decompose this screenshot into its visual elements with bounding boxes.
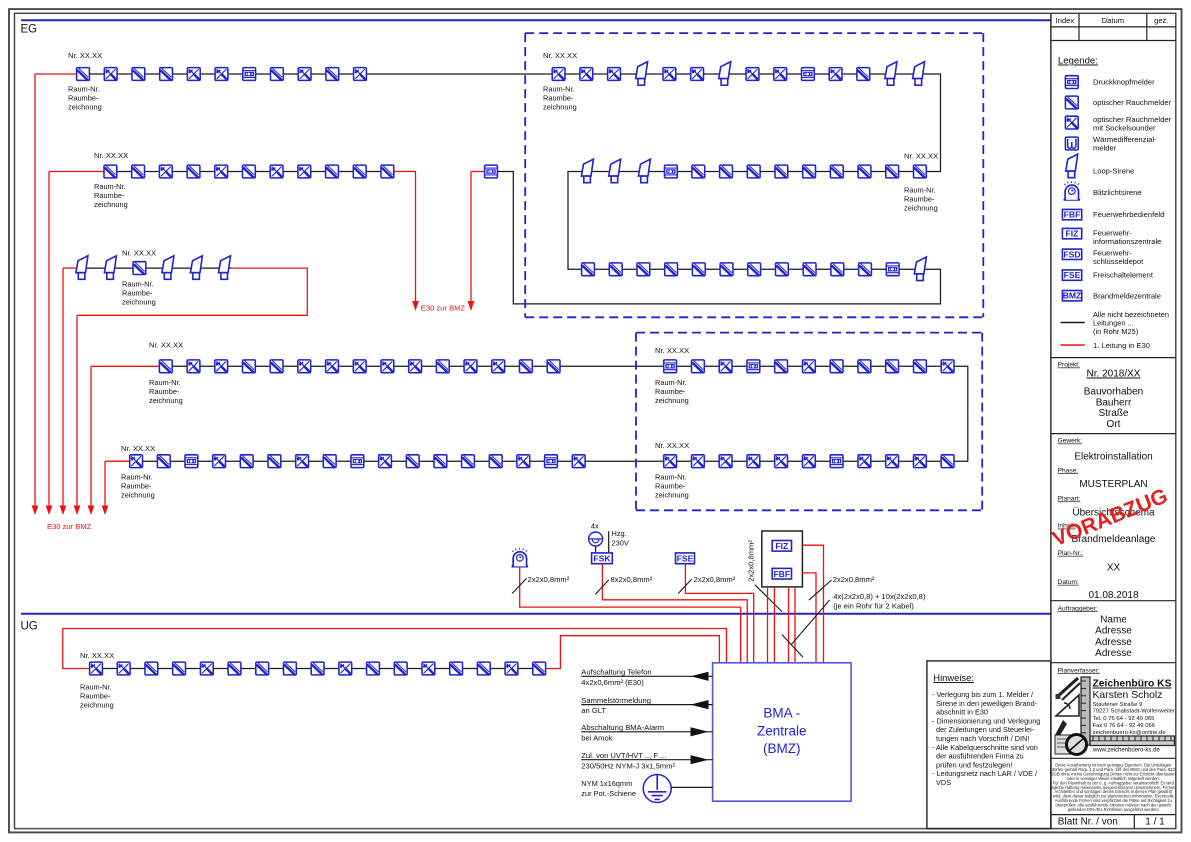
smoke detector with sounder base row D bbox=[492, 360, 505, 373]
manual call point standalone bbox=[485, 165, 498, 178]
wire Hzg to FSK bbox=[608, 531, 610, 553]
smoke detector with sounder base box2 row2 bbox=[803, 455, 816, 468]
svg-text:Aufschaltung Telefon: Aufschaltung Telefon bbox=[581, 668, 651, 677]
wire loop 5 feed horizontal bbox=[105, 460, 130, 462]
svg-text:Nr. XX.XX: Nr. XX.XX bbox=[655, 346, 689, 355]
optical smoke detector row E bbox=[462, 455, 475, 468]
optical smoke detector box1 row2 bbox=[858, 165, 871, 178]
smoke detector with sounder base row D bbox=[298, 360, 311, 373]
svg-text:4x2x0,6mm² (E30): 4x2x0,6mm² (E30) bbox=[581, 678, 644, 687]
optical smoke detector row A bbox=[326, 68, 339, 81]
svg-text:Raum-Nr.Raumbe-zeichnung: Raum-Nr.Raumbe-zeichnung bbox=[655, 473, 689, 500]
smoke detector with sounder base box1 row1 bbox=[691, 68, 704, 81]
optical smoke detector box1 row2 bbox=[914, 165, 927, 178]
svg-text:FSE: FSE bbox=[677, 554, 694, 564]
optical smoke detector row B bbox=[104, 165, 117, 178]
loop siren box1 row1 bbox=[636, 62, 648, 85]
loop siren box1 row3 bbox=[914, 257, 926, 281]
svg-text:2x2x0,8mm²: 2x2x0,8mm² bbox=[694, 575, 736, 584]
cable slash FSE bbox=[678, 579, 692, 593]
wire loop 3 feed riser E30 bbox=[62, 268, 64, 506]
smoke detector with sounder base row B bbox=[270, 165, 283, 178]
svg-text:Planverfasser:: Planverfasser: bbox=[1058, 667, 1100, 674]
optical smoke detector box1 row2 bbox=[830, 165, 843, 178]
svg-text:Freischaltelement: Freischaltelement bbox=[1093, 271, 1154, 280]
loop siren box1 row2 bbox=[609, 159, 621, 183]
optical smoke detector row B bbox=[326, 165, 339, 178]
loop siren box1 row1 bbox=[719, 62, 731, 85]
svg-text:4x: 4x bbox=[591, 522, 599, 531]
wire UG loop return E30 bbox=[546, 636, 720, 669]
manual call point row E bbox=[351, 455, 364, 468]
smoke detector with sounder base box1 row1 bbox=[663, 68, 676, 81]
svg-text:FSK: FSK bbox=[593, 554, 611, 564]
arrowhead loop 2 return bbox=[412, 301, 419, 311]
optical smoke detector UG row bbox=[450, 662, 463, 675]
logo horizontal ruler bbox=[1090, 736, 1175, 746]
smoke detector with sounder base row A bbox=[298, 68, 311, 81]
svg-text:schlüsseldepot: schlüsseldepot bbox=[1093, 257, 1144, 266]
legend symbol cp bbox=[1065, 76, 1078, 89]
smoke detector with sounder base box2 row2 bbox=[775, 455, 788, 468]
loop siren box1 row2 bbox=[638, 159, 650, 183]
svg-text:- Verlegung bis zum 1. Melder: - Verlegung bis zum 1. Melder / Sirene i… bbox=[932, 690, 1040, 787]
smoke detector with sounder base box2 row2 bbox=[858, 455, 871, 468]
title block divider bbox=[1051, 357, 1176, 359]
smoke detector with sounder base box2 row2 bbox=[719, 455, 732, 468]
wire loop 3 feed horizontal bbox=[63, 267, 77, 269]
wire cabinet to BMZ 4 bbox=[794, 587, 796, 663]
wire BMZ connection Abschaltung BMA-Alar bbox=[581, 731, 712, 733]
manual call point box1 row3 bbox=[886, 263, 899, 276]
smoke detector with sounder base box1 row1 bbox=[608, 68, 621, 81]
svg-text:Zul. von UVT/HVT .., F ...: Zul. von UVT/HVT .., F ... bbox=[581, 751, 666, 760]
svg-text:Brandmeldezentrale: Brandmeldezentrale bbox=[1093, 291, 1161, 300]
svg-text:Raum-Nr.Raumbe-zeichnung: Raum-Nr.Raumbe-zeichnung bbox=[122, 280, 156, 307]
svg-text:1. Leitung in E30: 1. Leitung in E30 bbox=[1093, 341, 1150, 350]
svg-text:Nr. XX.XX: Nr. XX.XX bbox=[94, 151, 128, 160]
optical smoke detector box1 row3 bbox=[831, 263, 844, 276]
svg-text:FIZ: FIZ bbox=[775, 541, 788, 551]
arrowhead loop 4 feed riser bbox=[88, 506, 95, 516]
optical smoke detector row E bbox=[489, 455, 502, 468]
FIZ FBF cabinet box bbox=[762, 531, 803, 587]
svg-text:Legende:: Legende: bbox=[1058, 56, 1098, 67]
wire loop 3 return bbox=[77, 268, 307, 315]
svg-text:Hinweise:: Hinweise: bbox=[933, 672, 974, 683]
smoke detector with sounder base box2 row2 bbox=[747, 455, 760, 468]
smoke detector with sounder base UG row bbox=[90, 662, 103, 675]
optical smoke detector box2 row1 bbox=[858, 360, 871, 373]
smoke detector with sounder base row D bbox=[326, 360, 339, 373]
EG floor divider line bbox=[21, 19, 1051, 21]
BMZ fire alarm control panel box bbox=[713, 663, 852, 801]
svg-text:FBF: FBF bbox=[773, 569, 790, 579]
Hinweise notes box bbox=[927, 661, 1051, 829]
cable slash right pair bbox=[809, 580, 832, 600]
arrowhead right bbox=[691, 755, 709, 764]
loop siren box1 row2 bbox=[581, 159, 593, 183]
loop siren box1 row1 bbox=[885, 62, 897, 85]
svg-text:www.zeichenbuero-ks.de: www.zeichenbuero-ks.de bbox=[1092, 748, 1160, 754]
smoke detector with sounder base box2 row1 bbox=[719, 360, 732, 373]
smoke detector with sounder base box2 row2 bbox=[664, 455, 677, 468]
wire cabinet to BMZ 2 bbox=[773, 587, 775, 663]
manual call point row E bbox=[545, 455, 558, 468]
optical smoke detector row A bbox=[271, 68, 284, 81]
wire loop 1 feed riser E30 bbox=[34, 74, 36, 506]
svg-text:Nr. XX.XX: Nr. XX.XX bbox=[68, 51, 102, 60]
title block divider bbox=[1051, 600, 1176, 602]
title block divider bbox=[1051, 662, 1176, 664]
optical smoke detector box1 row2 bbox=[747, 165, 760, 178]
smoke detector with sounder base box1 row1 bbox=[552, 68, 565, 81]
optical smoke detector row E bbox=[434, 455, 447, 468]
wire cabinet to BMZ 3 bbox=[788, 587, 790, 663]
svg-text:BMZ: BMZ bbox=[1063, 291, 1082, 301]
smoke detector with sounder base row E bbox=[517, 455, 530, 468]
arrowhead loop 2 feed riser bbox=[46, 506, 53, 516]
logo vertical ruler bbox=[1081, 677, 1090, 745]
fire section box 2 dashed border bbox=[636, 332, 982, 334]
svg-text:Abschaltung BMA-Alarm: Abschaltung BMA-Alarm bbox=[581, 723, 664, 732]
svg-text:Hzg.230V: Hzg.230V bbox=[612, 529, 629, 548]
svg-text:2x2x0,8mm²: 2x2x0,8mm² bbox=[747, 540, 756, 582]
optical smoke detector box2 row2 bbox=[941, 455, 954, 468]
svg-text:Zeichenbüro KS: Zeichenbüro KS bbox=[1093, 679, 1172, 690]
optical smoke detector UG row bbox=[477, 662, 490, 675]
optical smoke detector box2 row1 bbox=[830, 360, 843, 373]
optical smoke detector row D bbox=[159, 360, 172, 373]
optical smoke detector row A bbox=[160, 68, 173, 81]
svg-text:Phase:: Phase: bbox=[1058, 467, 1079, 474]
smoke detector with sounder base row A bbox=[354, 68, 367, 81]
legend box FBF bbox=[1062, 209, 1081, 219]
smoke detector with sounder base row E bbox=[296, 455, 309, 468]
FSK fire brigade key box bbox=[592, 553, 613, 564]
cable slash flash siren bbox=[512, 578, 527, 593]
wire earth to BMZ bbox=[671, 786, 712, 788]
arrowhead right bbox=[691, 727, 709, 736]
arrowhead loop 1 return bbox=[468, 301, 475, 311]
optical smoke detector box2 row1 bbox=[886, 360, 899, 373]
UG floor divider line bbox=[21, 613, 1051, 615]
svg-text:melder: melder bbox=[1093, 144, 1117, 153]
legend black line sample bbox=[1061, 322, 1085, 324]
wire loop 4 feed riser E30 bbox=[90, 366, 92, 506]
loop siren box1 row1 bbox=[913, 62, 925, 85]
optical smoke detector box1 row2 bbox=[692, 165, 705, 178]
smoke detector with sounder base row E bbox=[130, 455, 143, 468]
svg-text:Gewerk:: Gewerk: bbox=[1058, 438, 1083, 445]
svg-text:Nr. XX.XX: Nr. XX.XX bbox=[149, 341, 183, 350]
svg-text:E30 zur BMZ: E30 zur BMZ bbox=[421, 303, 466, 312]
svg-text:Nr. XX.XX: Nr. XX.XX bbox=[121, 444, 155, 453]
smoke detector with sounder base UG row bbox=[117, 662, 130, 675]
svg-text:Raum-Nr.Raumbe-zeichnung: Raum-Nr.Raumbe-zeichnung bbox=[121, 473, 155, 500]
svg-text:Elektroinstallation: Elektroinstallation bbox=[1074, 452, 1152, 463]
svg-text:Raum-Nr.Raumbe-zeichnung: Raum-Nr.Raumbe-zeichnung bbox=[543, 85, 577, 112]
smoke detector with sounder base box2 row1 bbox=[803, 360, 816, 373]
svg-text:NameAdresseAdresseAdresse: NameAdresseAdresseAdresse bbox=[1095, 615, 1132, 660]
wire loop 4 feed horizontal bbox=[91, 365, 159, 367]
smoke detector with sounder base row A bbox=[104, 68, 117, 81]
svg-text:Nr. XX.XX: Nr. XX.XX bbox=[543, 51, 577, 60]
manual call point box2 row2 bbox=[830, 455, 843, 468]
legend symbol horn bbox=[1066, 154, 1078, 178]
smoke detector with sounder base UG row bbox=[422, 662, 435, 675]
optical smoke detector box1 row3 bbox=[803, 263, 816, 276]
svg-text:EG: EG bbox=[21, 24, 38, 36]
svg-text:UG: UG bbox=[21, 621, 38, 633]
svg-text:2x2x0,8mm²: 2x2x0,8mm² bbox=[528, 575, 570, 584]
optical smoke detector box2 row1 bbox=[914, 360, 927, 373]
smoke detector with sounder base row B bbox=[298, 165, 311, 178]
svg-text:4x(2x2x0,8) + 10x(2x2x0,8): 4x(2x2x0,8) + 10x(2x2x0,8) bbox=[833, 592, 926, 601]
optical smoke detector box1 row2 bbox=[720, 165, 733, 178]
optical smoke detector row E bbox=[323, 455, 336, 468]
optical smoke detector UG row bbox=[367, 662, 380, 675]
fire section box 1 dashed border bbox=[525, 32, 983, 34]
optical smoke detector UG row bbox=[145, 662, 158, 675]
wire UG loop feed E30 bbox=[63, 629, 727, 669]
loop siren row C bbox=[162, 256, 174, 280]
svg-text:Nr. XX.XX: Nr. XX.XX bbox=[904, 152, 938, 161]
legend red line sample bbox=[1061, 344, 1085, 346]
svg-text:230/50Hz NYM-J 3x1,5mm²: 230/50Hz NYM-J 3x1,5mm² bbox=[581, 761, 675, 770]
arrowhead loop 1 feed riser bbox=[32, 506, 39, 516]
optical smoke detector box1 row3 bbox=[776, 263, 789, 276]
legend box FIZ bbox=[1062, 228, 1081, 238]
svg-text:Blatt Nr. / von: Blatt Nr. / von bbox=[1058, 817, 1118, 828]
manual call point row E bbox=[185, 455, 198, 468]
legend symbol opt bbox=[1065, 96, 1078, 109]
optical smoke detector box1 row3 bbox=[609, 263, 622, 276]
smoke detector with sounder base row E bbox=[213, 455, 226, 468]
svg-text:Nr. XX.XX: Nr. XX.XX bbox=[655, 441, 689, 450]
flash light siren bbox=[512, 548, 529, 567]
optical smoke detector UG row bbox=[228, 662, 241, 675]
wire BMZ connection Sammelst&#246;rmeldu bbox=[581, 704, 712, 706]
smoke detector with sounder base UG row bbox=[339, 662, 352, 675]
smoke detector with sounder base row D bbox=[353, 360, 366, 373]
optical smoke detector row A bbox=[132, 68, 145, 81]
svg-text:Raum-Nr.Raumbe-zeichnung: Raum-Nr.Raumbe-zeichnung bbox=[68, 85, 102, 112]
wire flash siren to BMZ E30 bbox=[520, 567, 741, 663]
svg-text:Diese Ausarbeitung ist mein ge: Diese Ausarbeitung ist mein geistiges Ei… bbox=[1049, 763, 1177, 813]
svg-text:FSE: FSE bbox=[1064, 270, 1081, 280]
svg-text:Feuerwehrbedienfeld: Feuerwehrbedienfeld bbox=[1093, 210, 1164, 219]
svg-text:Datum:: Datum: bbox=[1058, 579, 1079, 586]
manual call point box2 row1 bbox=[664, 360, 677, 373]
svg-text:NYM 1x16qmmzur Pot.-Schiene: NYM 1x16qmmzur Pot.-Schiene bbox=[581, 779, 636, 798]
optical smoke detector row D bbox=[270, 360, 283, 373]
optical smoke detector box1 row3 bbox=[582, 263, 595, 276]
cable slash FSK bbox=[595, 580, 609, 594]
title block divider bbox=[1051, 814, 1176, 816]
smoke detector with sounder base row E bbox=[379, 455, 392, 468]
svg-text:bei Amok: bei Amok bbox=[581, 733, 612, 742]
svg-text:Projekt:: Projekt: bbox=[1058, 362, 1081, 369]
arrowhead loop 3 return riser bbox=[74, 506, 81, 516]
svg-text:Nr. XX.XX: Nr. XX.XX bbox=[122, 249, 156, 258]
wire UG row bbox=[90, 668, 547, 670]
logo lens circle bbox=[1067, 735, 1087, 755]
svg-text:Datum: Datum bbox=[1102, 16, 1124, 25]
optical smoke detector row A bbox=[77, 68, 90, 81]
smoke detector with sounder base box2 row2 bbox=[914, 455, 927, 468]
wire loop 1 return riser E30 bbox=[470, 172, 472, 302]
FBF fire brigade panel box bbox=[772, 568, 791, 579]
svg-text:MUSTERPLAN: MUSTERPLAN bbox=[1079, 479, 1147, 490]
svg-text:Raum-Nr.Raumbe-zeichnung: Raum-Nr.Raumbe-zeichnung bbox=[80, 683, 114, 710]
optical smoke detector box1 row3 bbox=[720, 263, 733, 276]
svg-text:Nr. XX.XX: Nr. XX.XX bbox=[80, 651, 114, 660]
wire loop 2 feed riser E30 bbox=[48, 172, 50, 507]
smoke detector with sounder base box2 row2 bbox=[886, 455, 899, 468]
bell symbol 4x bbox=[589, 532, 603, 546]
svg-text:Nr. 2018/XX: Nr. 2018/XX bbox=[1087, 369, 1141, 380]
svg-text:Sammelstörmeldung: Sammelstörmeldung bbox=[581, 696, 651, 705]
legend box FSD bbox=[1062, 249, 1081, 259]
svg-text:FIZ: FIZ bbox=[1066, 229, 1079, 239]
optical smoke detector row E bbox=[240, 455, 253, 468]
loop siren row C bbox=[219, 256, 231, 280]
optical smoke detector UG row bbox=[311, 662, 324, 675]
optical smoke detector row D bbox=[436, 360, 449, 373]
svg-text:01.08.2018: 01.08.2018 bbox=[1088, 590, 1138, 601]
optical smoke detector box2 row1 bbox=[692, 360, 705, 373]
arrowhead loop 5 feed riser bbox=[102, 506, 109, 516]
svg-text:Plan-Nr.:: Plan-Nr.: bbox=[1058, 550, 1084, 557]
wire BMZ connection Aufschaltung Telefon bbox=[581, 675, 712, 677]
wire call point feed bbox=[471, 171, 485, 173]
smoke detector with sounder base UG row bbox=[505, 662, 518, 675]
smoke detector with sounder base box2 row1 bbox=[941, 360, 954, 373]
optical smoke detector row E bbox=[268, 455, 281, 468]
wire bell to FSK bbox=[595, 546, 597, 553]
wire loop 2 row B bbox=[104, 171, 394, 173]
svg-text:Raum-Nr.Raumbe-zeichnung: Raum-Nr.Raumbe-zeichnung bbox=[149, 378, 183, 405]
wire loop 3 return riser E30 bbox=[76, 315, 78, 506]
svg-text:an GLT: an GLT bbox=[581, 706, 606, 715]
leader line cable group bbox=[791, 600, 830, 645]
svg-text:mit Sockelsounder: mit Sockelsounder bbox=[1093, 124, 1156, 133]
legend symbol snd bbox=[1065, 116, 1078, 129]
smoke detector with sounder base row D bbox=[381, 360, 394, 373]
svg-text:Raum-Nr.Raumbe-zeichnung: Raum-Nr.Raumbe-zeichnung bbox=[904, 186, 938, 213]
svg-text:2x2x0,8mm²: 2x2x0,8mm² bbox=[833, 575, 875, 584]
smoke detector with sounder base row B bbox=[159, 165, 172, 178]
index table lines bbox=[1051, 26, 1176, 28]
optical smoke detector box1 row1 bbox=[857, 68, 870, 81]
earth potential symbol bbox=[643, 775, 671, 803]
svg-text:FSD: FSD bbox=[1063, 249, 1080, 259]
svg-text:Raum-Nr.Raumbe-zeichnung: Raum-Nr.Raumbe-zeichnung bbox=[655, 378, 689, 405]
arrowhead left bbox=[691, 672, 709, 681]
FIZ fire information centre box bbox=[772, 541, 791, 552]
wire loop 3 row C bbox=[77, 267, 231, 269]
manual call point box2 row1 bbox=[747, 360, 760, 373]
wire loop 2 feed horizontal bbox=[49, 171, 104, 173]
optical smoke detector row D bbox=[243, 360, 256, 373]
svg-text:Loop-Sirene: Loop-Sirene bbox=[1093, 167, 1134, 176]
loop siren row C bbox=[190, 256, 202, 280]
legend box FSE bbox=[1062, 270, 1081, 280]
svg-text:optischer Rauchmelder: optischer Rauchmelder bbox=[1093, 98, 1172, 107]
svg-text:Blitzlichtsirene: Blitzlichtsirene bbox=[1093, 188, 1142, 197]
svg-text:BMA -Zentrale(BMZ): BMA -Zentrale(BMZ) bbox=[757, 706, 807, 757]
smoke detector with sounder base row A bbox=[187, 68, 200, 81]
svg-text:Auftraggeber:: Auftraggeber: bbox=[1058, 605, 1098, 612]
svg-text:informationszentrale: informationszentrale bbox=[1093, 237, 1161, 246]
wire cabinet to BMZ 1 bbox=[767, 587, 769, 663]
wire FSK to BMZ E30 bbox=[602, 564, 747, 663]
smoke detector with sounder base row A bbox=[215, 68, 228, 81]
loop siren row C bbox=[104, 256, 116, 280]
optical smoke detector row B bbox=[132, 165, 145, 178]
smoke detector with sounder base UG row bbox=[200, 662, 213, 675]
svg-text:Druckknopfmelder: Druckknopfmelder bbox=[1093, 78, 1155, 87]
smoke detector with sounder base box1 row1 bbox=[829, 68, 842, 81]
svg-text:(je ein Rohr für 2 Kabel): (je ein Rohr für 2 Kabel) bbox=[833, 602, 914, 611]
svg-text:1 / 1: 1 / 1 bbox=[1145, 817, 1165, 828]
optical smoke detector box1 row2 bbox=[775, 165, 788, 178]
optical smoke detector box1 row2 bbox=[803, 165, 816, 178]
optical smoke detector row B bbox=[187, 165, 200, 178]
svg-text:Index: Index bbox=[1056, 16, 1075, 25]
optical smoke detector row B bbox=[243, 165, 256, 178]
svg-text:Raum-Nr.Raumbe-zeichnung: Raum-Nr.Raumbe-zeichnung bbox=[94, 182, 128, 209]
arrowhead loop 3 feed riser bbox=[60, 506, 67, 516]
manual call point row A bbox=[243, 68, 256, 81]
optical smoke detector box1 row2 bbox=[886, 165, 899, 178]
svg-text:Planart:: Planart: bbox=[1058, 495, 1081, 502]
svg-text:gez.: gez. bbox=[1154, 16, 1168, 25]
wire loop 1 main line row A through box 1 bbox=[77, 74, 941, 304]
legend box BMZ bbox=[1062, 291, 1081, 301]
smoke detector with sounder base row D bbox=[409, 360, 422, 373]
smoke detector with sounder base row E bbox=[572, 455, 585, 468]
optical smoke detector box2 row1 bbox=[775, 360, 788, 373]
optical smoke detector row D bbox=[520, 360, 533, 373]
optical smoke detector row E bbox=[406, 455, 419, 468]
svg-text:Karsten Scholz: Karsten Scholz bbox=[1093, 690, 1163, 701]
optical smoke detector UG row bbox=[284, 662, 297, 675]
cable slash group lower bbox=[782, 635, 803, 658]
optical smoke detector row D bbox=[547, 360, 560, 373]
legend symbol wm bbox=[1065, 137, 1078, 150]
optical smoke detector box1 row3 bbox=[748, 263, 761, 276]
smoke detector with sounder base row D bbox=[215, 360, 228, 373]
wire loop 2 return E30 bbox=[394, 172, 416, 302]
title panel left border bbox=[1050, 13, 1052, 828]
legend symbol blitz bbox=[1064, 181, 1081, 200]
optical smoke detector UG row bbox=[256, 662, 269, 675]
logo drawing tools bbox=[1055, 678, 1080, 754]
optical smoke detector box1 row3 bbox=[665, 263, 678, 276]
svg-text:E30 zur BMZ: E30 zur BMZ bbox=[47, 522, 92, 531]
optical smoke detector box1 row3 bbox=[692, 263, 705, 276]
optical smoke detector UG row bbox=[394, 662, 407, 675]
wire FSE to BMZ E30 bbox=[685, 564, 753, 663]
manual call point box1 row2 bbox=[665, 165, 678, 178]
optical smoke detector row C bbox=[133, 262, 146, 275]
smoke detector with sounder base row D bbox=[187, 360, 200, 373]
loop siren row C bbox=[76, 256, 88, 280]
wire loop 1 feed horizontal bbox=[35, 73, 77, 75]
FSE release element box bbox=[676, 553, 695, 564]
